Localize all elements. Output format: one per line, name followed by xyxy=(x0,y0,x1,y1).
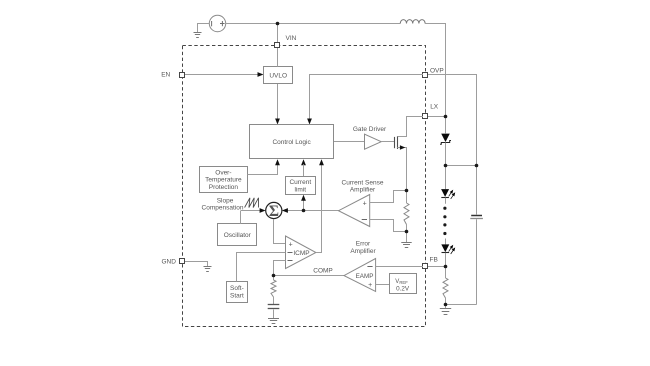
svg-text:Oscillator: Oscillator xyxy=(224,232,252,239)
diode D1 schottky rectifier xyxy=(445,116,447,133)
svg-text:Protection: Protection xyxy=(209,184,239,191)
LED string ellipsis dot 4 xyxy=(443,232,446,235)
LED D3 xyxy=(445,239,447,245)
wire COMP from EAMP output xyxy=(273,275,344,277)
block VREF 0.2V xyxy=(390,274,417,294)
op-amp EAMP error amplifier xyxy=(344,259,376,292)
node LX junction xyxy=(444,115,448,119)
svg-text:Slope: Slope xyxy=(217,197,234,204)
chip boundary dashed xyxy=(183,46,426,327)
capacitor C1 output xyxy=(471,215,482,217)
wire CSA minus input to sense bottom xyxy=(370,220,406,232)
node sense resistor top xyxy=(405,189,409,193)
wire VIN drop xyxy=(277,24,279,43)
transistor Q1 NMOS xyxy=(395,136,398,149)
wire OTP to Control Logic xyxy=(248,164,278,174)
svg-text:GND: GND xyxy=(162,258,177,265)
svg-text:REF: REF xyxy=(399,280,408,285)
svg-text:Temperature: Temperature xyxy=(205,177,242,184)
svg-text:+: + xyxy=(363,200,367,207)
wire LX pin to diode column xyxy=(428,116,445,118)
wire FB pin to LED column xyxy=(428,266,445,268)
svg-text:Control Logic: Control Logic xyxy=(272,139,311,146)
svg-text:+: + xyxy=(368,282,372,289)
wire sense line to Current limit xyxy=(303,200,305,211)
wire output node to cap column xyxy=(445,165,476,167)
svg-text:VIN: VIN xyxy=(286,35,297,42)
block Soft-Start xyxy=(227,282,248,303)
resistor Rfb LED current sense xyxy=(445,267,447,278)
op-amp current sense amplifier xyxy=(339,195,370,227)
wire OVP to Control Logic xyxy=(310,75,424,120)
svg-text:OVP: OVP xyxy=(430,67,444,74)
summing node sigma xyxy=(266,202,282,218)
resistor Rcs current sense xyxy=(406,191,408,203)
LED D3 light arrows xyxy=(449,246,455,255)
node FB junction xyxy=(444,265,448,269)
wire EN to UVLO xyxy=(185,74,259,76)
ground (LED string) xyxy=(440,309,451,315)
ground (current sense) xyxy=(401,243,411,248)
LED string ellipsis dot 3 xyxy=(443,223,446,226)
wire EAMP minus input to FB pin xyxy=(376,266,423,268)
MOSFET source arrow xyxy=(400,145,405,149)
wire CSA plus input to sense top xyxy=(370,191,406,203)
capacitor Ccomp xyxy=(268,304,280,306)
node diode output xyxy=(444,164,448,168)
wire oscillator to slope line xyxy=(240,211,242,224)
svg-text:Σ: Σ xyxy=(269,203,279,220)
block Oscillator xyxy=(218,224,257,246)
svg-text:Current: Current xyxy=(289,179,311,186)
svg-text:Error: Error xyxy=(356,241,371,248)
node VIN rail junction xyxy=(276,22,280,26)
svg-text:limit: limit xyxy=(295,187,307,194)
svg-text:EAMP: EAMP xyxy=(356,273,374,280)
LED string ellipsis dot 2 xyxy=(443,215,446,218)
block Over-Temperature Protection xyxy=(200,167,248,193)
resistor Rcomp xyxy=(273,276,275,280)
block Control Logic xyxy=(250,125,334,159)
wire VIN pin to UVLO xyxy=(277,48,279,67)
wire source negative lead xyxy=(198,24,210,33)
svg-text:Over-: Over- xyxy=(215,169,231,176)
svg-text:Soft-: Soft- xyxy=(230,285,244,292)
wire MOSFET drain to LX pin xyxy=(406,116,423,118)
pin LX xyxy=(423,114,428,119)
wire inductor to LX column xyxy=(425,24,445,117)
buffer gate driver xyxy=(365,134,382,149)
pin VIN xyxy=(275,43,280,48)
svg-text:+: + xyxy=(289,242,293,249)
voltage source V1 xyxy=(209,15,225,31)
pin EN xyxy=(180,73,185,78)
svg-text:UVLO: UVLO xyxy=(269,73,287,80)
pin OVP xyxy=(423,73,428,78)
node current limit tee xyxy=(302,209,306,213)
svg-text:Amplifier: Amplifier xyxy=(350,187,376,194)
pin GND xyxy=(180,259,185,264)
wire EAMP plus input to VREF xyxy=(376,284,390,286)
wire Current limit to Control Logic xyxy=(303,171,305,176)
ground (comp network) xyxy=(268,319,279,324)
svg-text:0.2V: 0.2V xyxy=(396,286,410,293)
wire CSA output to summing node xyxy=(287,210,339,212)
wire gate driver to MOSFET gate xyxy=(381,141,394,143)
wire Soft-Start to ICMP minus input xyxy=(237,253,286,282)
svg-text:EN: EN xyxy=(161,71,170,78)
LED D2 light arrows xyxy=(449,190,455,199)
pin FB xyxy=(423,264,428,269)
comparator ICMP xyxy=(286,236,316,269)
svg-text:FB: FB xyxy=(430,257,438,264)
ground (GND pin) xyxy=(204,267,212,272)
svg-text:Current Sense: Current Sense xyxy=(342,179,384,186)
wire UVLO to Control Logic xyxy=(277,84,279,120)
svg-text:ICMP: ICMP xyxy=(293,250,309,257)
wire COMP node to ICMP second minus input xyxy=(274,261,286,276)
LED string ellipsis dot 1 xyxy=(443,207,446,210)
node cap column tee xyxy=(475,164,479,168)
wire summing node to ICMP plus input xyxy=(274,219,286,244)
node sense resistor bottom xyxy=(405,230,409,234)
block UVLO xyxy=(264,67,293,84)
svg-text:LX: LX xyxy=(430,104,439,111)
wire GND pin to ground xyxy=(185,262,208,267)
svg-text:Amplifier: Amplifier xyxy=(350,248,376,255)
wire ICMP output to Control Logic xyxy=(316,164,322,252)
svg-text:Start: Start xyxy=(230,293,244,300)
block Current limit xyxy=(286,177,316,195)
node bottom junction xyxy=(444,303,448,307)
wire bottom node to ground xyxy=(445,304,447,309)
wire sense bottom to ground xyxy=(406,231,408,242)
node COMP junction xyxy=(272,274,276,278)
wire Control Logic to gate driver xyxy=(334,141,365,143)
ground (source) xyxy=(194,33,202,38)
svg-text:COMP: COMP xyxy=(313,268,333,275)
inductor L1 xyxy=(400,20,425,24)
sawtooth waveform xyxy=(245,198,259,208)
LED D2 xyxy=(445,165,447,189)
wire slope comp to summing node xyxy=(241,210,262,212)
svg-text:Gate Driver: Gate Driver xyxy=(353,126,387,133)
svg-text:Compensation: Compensation xyxy=(202,205,244,212)
wire top rail xyxy=(226,23,401,25)
wire OVP to output sense column xyxy=(428,75,477,215)
